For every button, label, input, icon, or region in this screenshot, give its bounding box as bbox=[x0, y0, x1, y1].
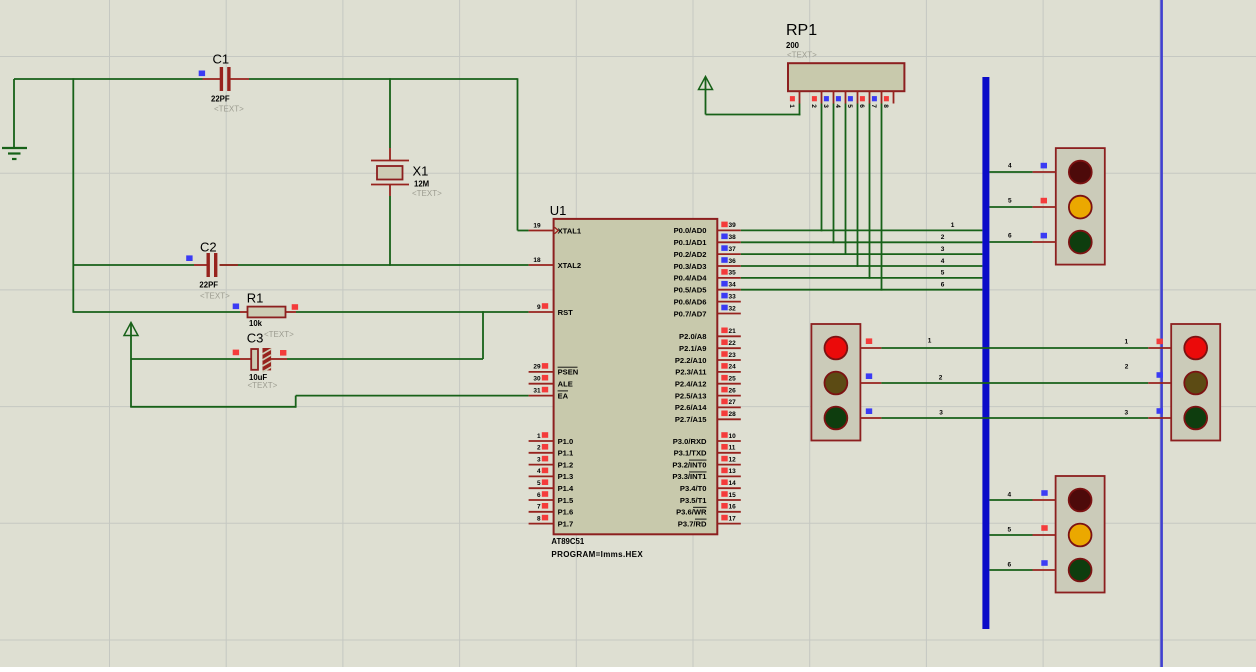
pin P3.1 (11) bbox=[674, 444, 741, 458]
wire: bottom loop to EA bbox=[130, 406, 296, 408]
svg-text:C2: C2 bbox=[200, 240, 217, 255]
pin P1.7 (8) bbox=[529, 515, 574, 529]
wire: RST to C3 vertical bbox=[482, 311, 484, 359]
traffic light TL3 (far right) bbox=[1171, 324, 1220, 441]
pin P2.0 (21) bbox=[679, 328, 741, 342]
pin P0.6 (33) bbox=[674, 293, 741, 307]
wire: C3 row right bbox=[287, 358, 483, 360]
svg-text:21: 21 bbox=[729, 328, 737, 335]
svg-text:6: 6 bbox=[537, 492, 541, 499]
svg-text:P2.3/A11: P2.3/A11 bbox=[675, 368, 707, 377]
wire: VCC to RP1 pin1 bbox=[706, 114, 801, 116]
pin P2.5 (26) bbox=[675, 387, 741, 401]
pin P3.4 (14) bbox=[680, 479, 741, 493]
svg-text:29: 29 bbox=[533, 364, 541, 371]
pin P3.3 (13) bbox=[672, 468, 740, 482]
svg-text:XTAL2: XTAL2 bbox=[558, 261, 582, 270]
svg-text:P3.0/RXD: P3.0/RXD bbox=[673, 437, 707, 446]
svg-text:X1: X1 bbox=[413, 164, 429, 179]
svg-text:P3.7/RD: P3.7/RD bbox=[678, 519, 707, 528]
svg-text:5: 5 bbox=[1008, 198, 1012, 205]
wire: bus to TL1 pin 5 bbox=[989, 198, 1055, 207]
wire: P0.0 to bus, net 1 bbox=[741, 229, 983, 231]
svg-text:16: 16 bbox=[729, 504, 737, 511]
pin P1.5 (6) bbox=[529, 491, 574, 505]
ground bbox=[2, 79, 27, 159]
wire: P0.1 to bus, net 2 bbox=[741, 241, 983, 243]
resistor R1 bbox=[233, 304, 298, 318]
svg-text:35: 35 bbox=[729, 270, 737, 277]
svg-text:P3.3/INT1: P3.3/INT1 bbox=[672, 472, 707, 481]
svg-text:RST: RST bbox=[558, 308, 574, 317]
wire: TL2 pin 1 to TL3, net 1 bbox=[860, 338, 1171, 348]
svg-text:1: 1 bbox=[1124, 339, 1128, 346]
svg-text:P0.7/AD7: P0.7/AD7 bbox=[674, 309, 707, 318]
wire: crystal top bbox=[389, 78, 391, 148]
svg-text:XTAL1: XTAL1 bbox=[558, 226, 582, 235]
svg-text:1: 1 bbox=[951, 222, 955, 229]
svg-text:3: 3 bbox=[822, 104, 829, 108]
wire: P0.4 to bus, net 5 bbox=[741, 277, 983, 279]
pin P0.3 (36) bbox=[674, 257, 741, 271]
wire: C2 row from branch bbox=[73, 264, 194, 266]
pin P0.4 (35) bbox=[674, 269, 741, 283]
svg-text:14: 14 bbox=[729, 480, 737, 487]
svg-text:C3: C3 bbox=[247, 331, 264, 346]
svg-text:P1.1: P1.1 bbox=[558, 449, 574, 458]
svg-text:7: 7 bbox=[537, 504, 541, 511]
svg-text:34: 34 bbox=[729, 282, 737, 289]
svg-text:22PF: 22PF bbox=[199, 281, 218, 290]
vertical blue border line bbox=[1160, 0, 1163, 667]
svg-text:24: 24 bbox=[729, 364, 737, 371]
svg-text:P1.6: P1.6 bbox=[558, 508, 574, 517]
pin P3.2 (12) bbox=[672, 456, 740, 470]
TL3 pin squares on blue line bbox=[1157, 339, 1163, 345]
svg-text:28: 28 bbox=[729, 411, 737, 418]
capacitor C1 bbox=[199, 67, 249, 91]
wire: TL2 pin 2 to TL3, net 2 bbox=[860, 373, 1171, 383]
svg-text:5: 5 bbox=[846, 104, 853, 108]
svg-text:3: 3 bbox=[941, 246, 945, 253]
svg-text:1: 1 bbox=[537, 433, 541, 440]
wire: RP1 pin 2 to P0.0 bbox=[821, 104, 823, 232]
svg-text:6: 6 bbox=[1008, 233, 1012, 240]
pin P2.2 (23) bbox=[675, 351, 741, 365]
RP1 pin 3 bbox=[822, 91, 833, 108]
svg-text:P0.2/AD2: P0.2/AD2 bbox=[674, 250, 707, 259]
svg-text:P2.1/A9: P2.1/A9 bbox=[679, 344, 706, 353]
svg-text:6: 6 bbox=[941, 282, 945, 289]
pin P2.3 (24) bbox=[675, 363, 741, 377]
pin P2.1 (22) bbox=[679, 339, 741, 353]
pin P2.4 (25) bbox=[675, 375, 741, 389]
svg-text:P0.6/AD6: P0.6/AD6 bbox=[674, 297, 707, 306]
svg-text:<TEXT>: <TEXT> bbox=[200, 292, 230, 301]
pin P3.0 (10) bbox=[673, 432, 741, 446]
svg-text:17: 17 bbox=[729, 515, 737, 522]
svg-text:ALE: ALE bbox=[558, 380, 573, 389]
svg-text:2: 2 bbox=[1125, 363, 1129, 370]
svg-text:AT89C51: AT89C51 bbox=[551, 537, 584, 546]
wire: P0.5 to bus, net 6 bbox=[741, 289, 983, 291]
svg-text:P1.0: P1.0 bbox=[558, 437, 574, 446]
power arrow VCC near RP1 bbox=[699, 77, 713, 115]
pin P3.6 (16) bbox=[676, 503, 741, 517]
svg-text:PSEN: PSEN bbox=[558, 368, 579, 377]
svg-text:8: 8 bbox=[882, 104, 889, 108]
svg-text:P3.5/T1: P3.5/T1 bbox=[680, 496, 707, 505]
svg-text:P3.6/WR: P3.6/WR bbox=[676, 508, 707, 517]
wire: C2 right to XTAL2 bbox=[220, 264, 529, 266]
svg-text:4: 4 bbox=[834, 104, 841, 108]
svg-text:33: 33 bbox=[729, 293, 737, 300]
svg-text:8: 8 bbox=[537, 515, 541, 522]
bus (blue) bbox=[982, 77, 989, 629]
svg-text:R1: R1 bbox=[247, 291, 264, 306]
pin P0.2 (37) bbox=[674, 245, 741, 259]
svg-text:2: 2 bbox=[810, 104, 817, 108]
pin P1.1 (2) bbox=[529, 444, 574, 458]
svg-text:P3.1/TXD: P3.1/TXD bbox=[674, 449, 707, 458]
RP1 pin 6 bbox=[858, 91, 869, 108]
traffic light TL4 (bottom right) bbox=[1056, 476, 1105, 593]
pin P0.0 (39) bbox=[674, 222, 741, 236]
svg-text:<TEXT>: <TEXT> bbox=[248, 381, 278, 390]
wire: bus to TL1 pin 6 bbox=[989, 233, 1055, 242]
wire: vertical ground branch x=73 bbox=[72, 78, 74, 313]
svg-text:<TEXT>: <TEXT> bbox=[412, 189, 442, 198]
svg-text:P2.4/A12: P2.4/A12 bbox=[675, 380, 707, 389]
svg-text:31: 31 bbox=[533, 387, 541, 394]
svg-text:22PF: 22PF bbox=[211, 95, 230, 104]
svg-text:P0.1/AD1: P0.1/AD1 bbox=[674, 238, 708, 247]
svg-text:PROGRAM=Imms.HEX: PROGRAM=Imms.HEX bbox=[551, 550, 643, 559]
svg-text:C1: C1 bbox=[213, 52, 230, 67]
RP1 pin 4 bbox=[834, 91, 845, 108]
svg-text:1: 1 bbox=[788, 104, 795, 108]
svg-text:3: 3 bbox=[537, 456, 541, 463]
svg-text:P2.7/A15: P2.7/A15 bbox=[675, 415, 707, 424]
wire: bus to TL4 pin 5 bbox=[989, 525, 1055, 535]
svg-text:6: 6 bbox=[858, 104, 865, 108]
svg-text:4: 4 bbox=[1007, 492, 1011, 499]
microcontroller U1 (AT89C51) bbox=[554, 219, 718, 534]
wire: R1 right to RST bbox=[296, 311, 529, 313]
svg-text:7: 7 bbox=[870, 104, 877, 108]
wire: R1 row from branch bbox=[73, 311, 240, 313]
svg-text:10k: 10k bbox=[249, 319, 263, 328]
pin P0.7 (32) bbox=[674, 305, 741, 319]
wire: P0.2 to bus, net 3 bbox=[741, 253, 983, 255]
traffic light TL2 (middle) bbox=[811, 324, 860, 441]
RP1 pin 2 bbox=[810, 91, 821, 108]
pin P0.1 (38) bbox=[674, 234, 741, 248]
svg-text:19: 19 bbox=[533, 222, 541, 229]
svg-text:<TEXT>: <TEXT> bbox=[787, 51, 817, 60]
svg-text:15: 15 bbox=[729, 492, 737, 499]
wire: vertical step bbox=[295, 396, 297, 408]
svg-text:5: 5 bbox=[1007, 527, 1011, 534]
wire: C3 row left bbox=[131, 358, 240, 360]
wire: EA row bbox=[296, 395, 529, 397]
resistor pack RP1 bbox=[788, 63, 904, 91]
wire: RP1 pin 4 to P0.2 bbox=[845, 104, 847, 256]
svg-text:3: 3 bbox=[939, 409, 943, 416]
svg-text:12M: 12M bbox=[414, 180, 429, 189]
RP1 pin 1 bbox=[788, 91, 799, 108]
svg-text:P1.4: P1.4 bbox=[558, 484, 574, 493]
pin P3.5 (15) bbox=[680, 491, 741, 505]
svg-text:22: 22 bbox=[729, 340, 737, 347]
svg-text:4: 4 bbox=[537, 468, 541, 475]
svg-text:P1.7: P1.7 bbox=[558, 519, 574, 528]
pin EA (31) bbox=[529, 387, 569, 401]
svg-text:P2.5/A13: P2.5/A13 bbox=[675, 391, 707, 400]
svg-text:30: 30 bbox=[533, 376, 541, 383]
svg-text:P1.2: P1.2 bbox=[558, 460, 574, 469]
svg-text:5: 5 bbox=[941, 270, 945, 277]
svg-text:32: 32 bbox=[729, 305, 737, 312]
pin P0.5 (34) bbox=[674, 281, 741, 295]
wire: XTAL1 stub bbox=[518, 230, 529, 232]
pin XTAL1 (19) bbox=[529, 222, 582, 235]
svg-text:5: 5 bbox=[537, 480, 541, 487]
svg-text:P2.0/A8: P2.0/A8 bbox=[679, 332, 706, 341]
pin P3.7 (17) bbox=[678, 515, 741, 529]
svg-text:P2.6/A14: P2.6/A14 bbox=[675, 403, 707, 412]
svg-text:27: 27 bbox=[729, 399, 737, 406]
svg-text:38: 38 bbox=[729, 234, 737, 241]
wire: RP1 pin 6 to P0.4 bbox=[869, 104, 871, 279]
svg-text:P3.2/INT0: P3.2/INT0 bbox=[672, 460, 706, 469]
traffic light TL1 (top right) bbox=[1056, 148, 1105, 265]
svg-text:<TEXT>: <TEXT> bbox=[214, 105, 244, 114]
svg-text:6: 6 bbox=[1007, 562, 1011, 569]
wire: RP1 pin1 drop bbox=[799, 104, 801, 116]
pin P1.3 (4) bbox=[529, 468, 574, 482]
svg-text:P3.4/T0: P3.4/T0 bbox=[680, 484, 707, 493]
svg-text:P1.5: P1.5 bbox=[558, 496, 574, 505]
RP1 pin 7 bbox=[870, 91, 881, 108]
svg-text:36: 36 bbox=[729, 258, 737, 265]
crystal X1 bbox=[371, 148, 409, 196]
wire: ground to C1 left bbox=[14, 78, 203, 80]
svg-text:RP1: RP1 bbox=[786, 22, 817, 39]
svg-text:<TEXT>: <TEXT> bbox=[264, 330, 294, 339]
pin P1.2 (3) bbox=[529, 456, 574, 470]
svg-text:3: 3 bbox=[1124, 410, 1128, 417]
svg-text:10: 10 bbox=[729, 433, 737, 440]
pin P2.7 (28) bbox=[675, 411, 741, 425]
svg-text:11: 11 bbox=[729, 445, 736, 452]
svg-text:13: 13 bbox=[729, 468, 737, 475]
wire: bus to TL4 pin 4 bbox=[989, 490, 1055, 500]
svg-text:9: 9 bbox=[537, 304, 541, 311]
svg-text:25: 25 bbox=[729, 376, 737, 383]
wire: crystal bottom to XTAL2 row bbox=[389, 196, 391, 266]
pin XTAL2 (18) bbox=[529, 257, 582, 270]
wire: TL2 pin 3 to TL3, net 3 bbox=[860, 408, 1171, 418]
svg-text:4: 4 bbox=[941, 258, 945, 265]
svg-text:P0.5/AD5: P0.5/AD5 bbox=[674, 286, 708, 295]
svg-text:2: 2 bbox=[939, 375, 943, 382]
svg-text:37: 37 bbox=[729, 246, 737, 253]
pin P1.4 (5) bbox=[529, 479, 574, 493]
svg-text:P0.4/AD4: P0.4/AD4 bbox=[674, 274, 708, 283]
capacitor C2 bbox=[186, 253, 238, 277]
wire: RP1 pin 5 to P0.3 bbox=[857, 104, 859, 267]
wire: RP1 pin 7 to P0.5 bbox=[881, 104, 883, 291]
wire: bus to TL4 pin 6 bbox=[989, 560, 1055, 570]
svg-text:EA: EA bbox=[558, 391, 569, 400]
svg-text:U1: U1 bbox=[550, 203, 567, 218]
svg-text:2: 2 bbox=[941, 234, 945, 241]
pin P1.6 (7) bbox=[529, 503, 574, 517]
wire: RP1 pin 3 to P0.1 bbox=[833, 104, 835, 244]
svg-text:P1.3: P1.3 bbox=[558, 472, 574, 481]
svg-text:1: 1 bbox=[928, 338, 932, 345]
svg-text:P2.2/A10: P2.2/A10 bbox=[675, 356, 707, 365]
wire: XTAL1 vertical drop bbox=[517, 78, 519, 230]
svg-text:39: 39 bbox=[729, 222, 737, 229]
svg-text:P0.3/AD3: P0.3/AD3 bbox=[674, 262, 707, 271]
svg-text:18: 18 bbox=[533, 257, 541, 264]
svg-text:12: 12 bbox=[729, 456, 737, 463]
pin PSEN (29) bbox=[529, 363, 579, 377]
svg-text:200: 200 bbox=[786, 41, 800, 50]
wire: P0.3 to bus, net 4 bbox=[741, 265, 983, 267]
pin RST (9) bbox=[529, 303, 574, 317]
capacitor C3 (electrolytic) bbox=[233, 348, 287, 372]
wire: bus to TL1 pin 4 bbox=[989, 163, 1055, 172]
RP1 pin 5 bbox=[846, 91, 857, 108]
svg-text:2: 2 bbox=[537, 445, 541, 452]
wire: C1 right to XTAL1 corner bbox=[249, 78, 518, 80]
power arrow VCC near C3 bbox=[124, 323, 138, 407]
RP1 pin 8 bbox=[882, 91, 893, 108]
svg-text:23: 23 bbox=[729, 352, 737, 359]
pin P1.0 (1) bbox=[529, 432, 574, 446]
svg-text:26: 26 bbox=[729, 387, 737, 394]
svg-text:P0.0/AD0: P0.0/AD0 bbox=[674, 226, 707, 235]
svg-text:4: 4 bbox=[1008, 163, 1012, 170]
pin ALE (30) bbox=[529, 375, 573, 389]
pin P2.6 (27) bbox=[675, 399, 741, 413]
